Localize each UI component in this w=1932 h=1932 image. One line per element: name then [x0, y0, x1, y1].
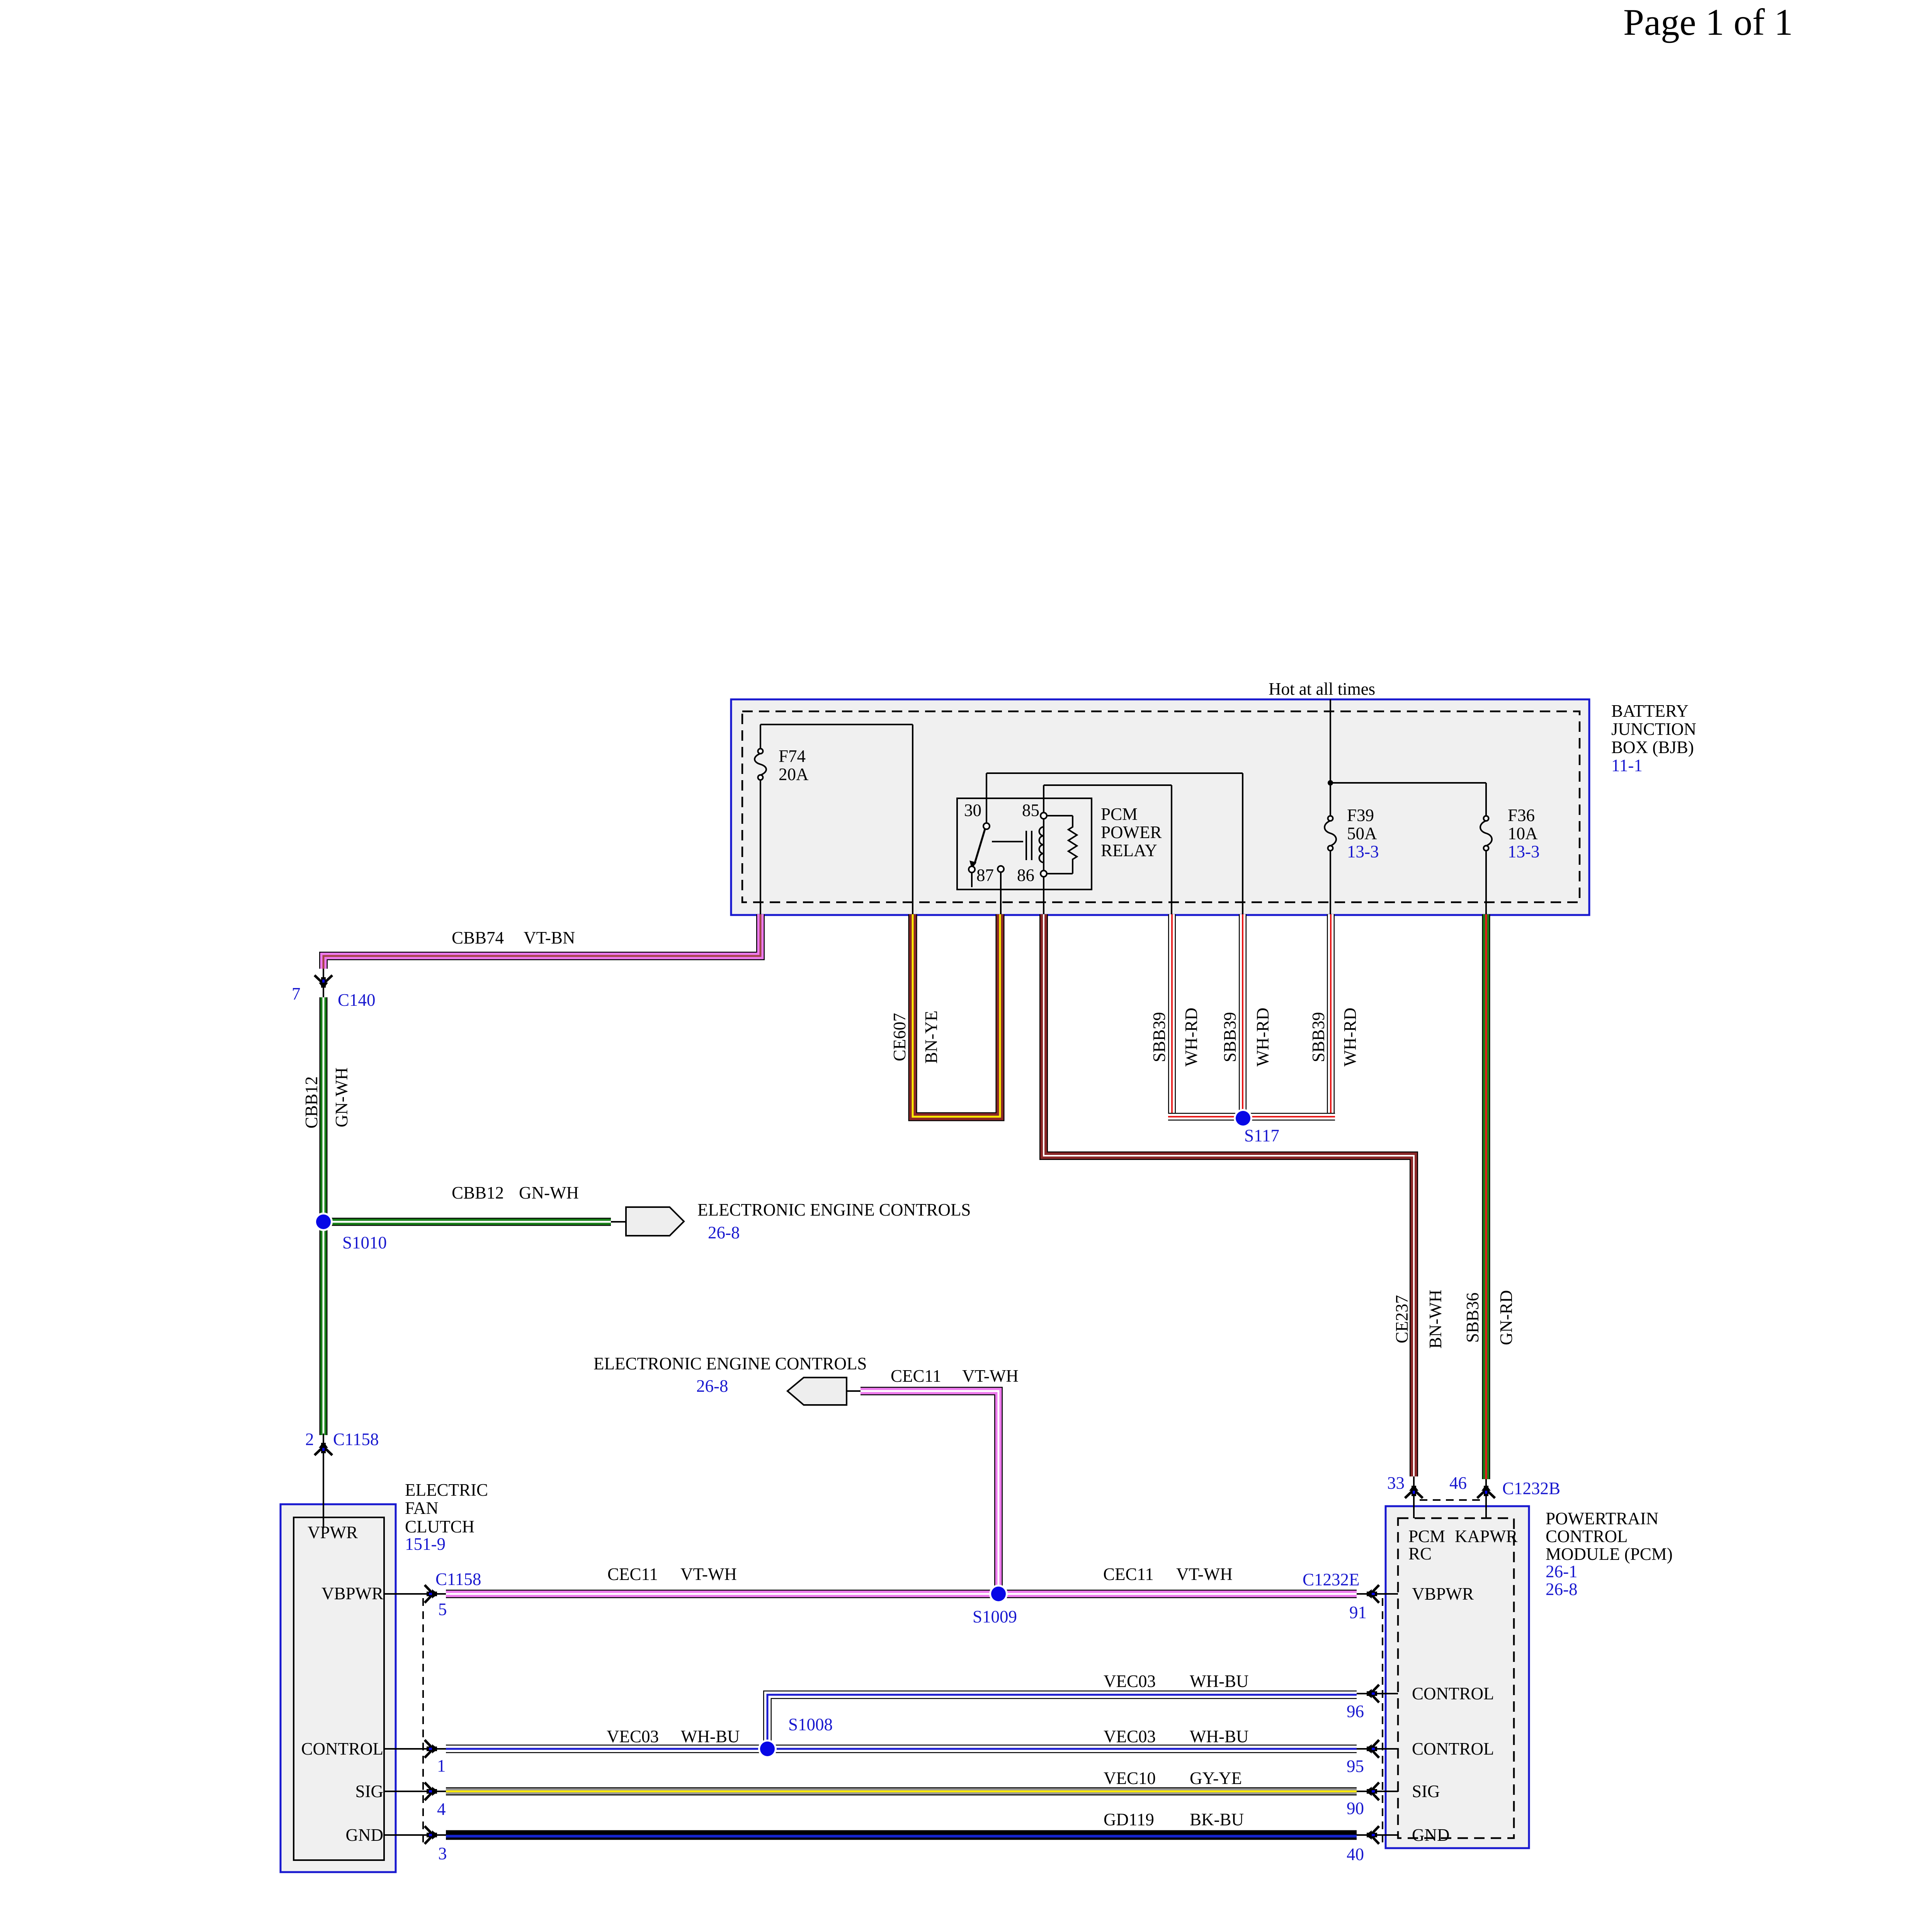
svg-text:CE237: CE237: [1392, 1295, 1412, 1343]
svg-text:BOX (BJB): BOX (BJB): [1611, 738, 1694, 757]
svg-text:F39: F39: [1347, 806, 1374, 825]
svg-text:JUNCTION: JUNCTION: [1611, 719, 1696, 739]
svg-text:F74: F74: [779, 747, 806, 766]
svg-text:CONTROL: CONTROL: [1412, 1739, 1494, 1759]
svg-text:S1010: S1010: [342, 1233, 387, 1252]
svg-text:F36: F36: [1508, 806, 1535, 825]
svg-text:7: 7: [292, 984, 301, 1003]
svg-text:KAPWR: KAPWR: [1455, 1527, 1518, 1546]
svg-text:10A: 10A: [1508, 824, 1538, 843]
svg-text:WH-RD: WH-RD: [1182, 1008, 1201, 1066]
svg-text:BN-WH: BN-WH: [1426, 1290, 1445, 1349]
svg-text:20A: 20A: [779, 765, 809, 784]
svg-text:13-3: 13-3: [1347, 842, 1379, 861]
svg-text:VT-WH: VT-WH: [680, 1565, 737, 1584]
svg-text:C1232B: C1232B: [1502, 1479, 1560, 1498]
svg-text:3: 3: [438, 1844, 447, 1863]
svg-text:50A: 50A: [1347, 824, 1377, 843]
svg-text:CBB74: CBB74: [452, 928, 504, 947]
svg-text:13-3: 13-3: [1508, 842, 1540, 861]
svg-text:BK-BU: BK-BU: [1190, 1810, 1244, 1829]
svg-text:1: 1: [437, 1756, 446, 1776]
svg-text:CONTROL: CONTROL: [1546, 1527, 1628, 1546]
svg-text:PCM: PCM: [1408, 1527, 1445, 1546]
svg-text:CE607: CE607: [890, 1013, 909, 1061]
svg-text:VT-WH: VT-WH: [1176, 1565, 1233, 1584]
svg-text:RC: RC: [1408, 1544, 1432, 1563]
svg-text:GY-YE: GY-YE: [1190, 1769, 1242, 1788]
svg-text:151-9: 151-9: [405, 1534, 446, 1554]
svg-text:CBB12: CBB12: [452, 1183, 504, 1202]
svg-text:40: 40: [1347, 1845, 1364, 1864]
svg-text:95: 95: [1347, 1757, 1364, 1776]
svg-text:SBB39: SBB39: [1309, 1012, 1328, 1062]
svg-text:S1009: S1009: [973, 1607, 1017, 1626]
svg-text:BN-YE: BN-YE: [922, 1010, 941, 1063]
svg-text:GND: GND: [346, 1825, 384, 1845]
svg-text:C140: C140: [338, 990, 376, 1010]
svg-text:CEC11: CEC11: [607, 1565, 658, 1584]
svg-text:86: 86: [1017, 866, 1034, 885]
svg-text:C1158: C1158: [333, 1430, 379, 1449]
svg-text:ELECTRONIC ENGINE CONTROLS: ELECTRONIC ENGINE CONTROLS: [697, 1200, 971, 1219]
svg-text:5: 5: [438, 1600, 447, 1619]
svg-text:Hot at all times: Hot at all times: [1269, 679, 1375, 699]
svg-text:C1158: C1158: [435, 1570, 481, 1589]
svg-text:GN-RD: GN-RD: [1497, 1290, 1516, 1345]
svg-text:POWERTRAIN: POWERTRAIN: [1546, 1509, 1658, 1528]
svg-text:C1232E: C1232E: [1303, 1570, 1360, 1589]
svg-text:WH-BU: WH-BU: [1190, 1672, 1248, 1691]
svg-text:VPWR: VPWR: [308, 1523, 358, 1542]
svg-text:GD119: GD119: [1104, 1810, 1154, 1829]
svg-text:Page 1 of 1: Page 1 of 1: [1623, 2, 1793, 43]
svg-text:WH-BU: WH-BU: [1190, 1727, 1248, 1746]
svg-text:S117: S117: [1244, 1126, 1279, 1145]
svg-text:VBPWR: VBPWR: [321, 1584, 383, 1603]
svg-text:91: 91: [1349, 1603, 1367, 1622]
svg-text:46: 46: [1449, 1473, 1467, 1493]
svg-text:26-1: 26-1: [1546, 1562, 1578, 1581]
svg-text:90: 90: [1347, 1799, 1364, 1818]
svg-text:CBB12: CBB12: [302, 1076, 321, 1128]
svg-text:33: 33: [1387, 1473, 1405, 1493]
svg-text:S1008: S1008: [788, 1715, 833, 1734]
svg-text:VEC03: VEC03: [1104, 1672, 1156, 1691]
svg-text:SIG: SIG: [1412, 1782, 1440, 1801]
svg-text:BATTERY: BATTERY: [1611, 701, 1689, 721]
svg-text:CEC11: CEC11: [891, 1366, 941, 1386]
svg-text:30: 30: [964, 801, 981, 820]
svg-text:CLUTCH: CLUTCH: [405, 1517, 474, 1536]
svg-text:GN-WH: GN-WH: [332, 1068, 351, 1128]
svg-text:96: 96: [1347, 1702, 1364, 1721]
svg-text:CONTROL: CONTROL: [1412, 1684, 1494, 1703]
svg-text:RELAY: RELAY: [1101, 841, 1157, 860]
svg-text:26-8: 26-8: [696, 1376, 728, 1396]
svg-text:ELECTRONIC ENGINE CONTROLS: ELECTRONIC ENGINE CONTROLS: [594, 1354, 867, 1373]
svg-text:FAN: FAN: [405, 1498, 439, 1518]
svg-text:VEC10: VEC10: [1104, 1769, 1156, 1788]
svg-text:VBPWR: VBPWR: [1412, 1584, 1474, 1604]
svg-text:MODULE (PCM): MODULE (PCM): [1546, 1544, 1673, 1564]
svg-text:87: 87: [976, 866, 994, 885]
svg-text:GND: GND: [1412, 1825, 1450, 1845]
svg-text:WH-RD: WH-RD: [1253, 1008, 1272, 1066]
svg-text:WH-BU: WH-BU: [681, 1727, 740, 1746]
svg-text:26-8: 26-8: [708, 1223, 740, 1242]
svg-text:2: 2: [305, 1430, 314, 1449]
svg-text:SIG: SIG: [355, 1782, 383, 1801]
svg-text:11-1: 11-1: [1611, 756, 1643, 775]
svg-text:SBB39: SBB39: [1220, 1012, 1240, 1062]
svg-text:85: 85: [1022, 801, 1039, 820]
svg-text:26-8: 26-8: [1546, 1580, 1578, 1599]
svg-text:VT-BN: VT-BN: [524, 928, 575, 947]
svg-text:VT-WH: VT-WH: [962, 1366, 1019, 1386]
svg-text:WH-RD: WH-RD: [1340, 1008, 1360, 1066]
svg-text:VEC03: VEC03: [1104, 1727, 1156, 1746]
svg-text:POWER: POWER: [1101, 823, 1162, 842]
svg-text:SBB39: SBB39: [1150, 1012, 1169, 1062]
svg-text:CEC11: CEC11: [1103, 1565, 1154, 1584]
svg-text:PCM: PCM: [1101, 804, 1138, 824]
svg-text:VEC03: VEC03: [607, 1727, 659, 1746]
svg-text:CONTROL: CONTROL: [301, 1739, 384, 1759]
svg-text:SBB36: SBB36: [1463, 1293, 1482, 1343]
svg-text:ELECTRIC: ELECTRIC: [405, 1480, 488, 1500]
svg-text:GN-WH: GN-WH: [519, 1183, 579, 1202]
svg-text:4: 4: [437, 1799, 446, 1819]
